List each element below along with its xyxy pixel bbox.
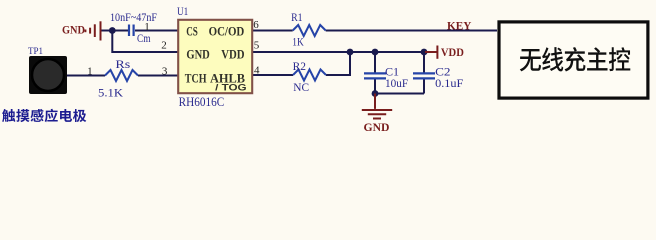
svg-text:NC: NC <box>293 82 309 94</box>
svg-text:Cm: Cm <box>137 33 151 45</box>
svg-text:1K: 1K <box>292 37 304 49</box>
svg-text:4: 4 <box>254 64 260 76</box>
svg-text:RH6016C: RH6016C <box>179 94 225 109</box>
svg-text:R1: R1 <box>291 12 303 24</box>
svg-text:TCH: TCH <box>185 71 207 85</box>
svg-text:VDD: VDD <box>221 47 244 61</box>
svg-text:/ TOG: / TOG <box>215 83 247 93</box>
svg-text:10uF: 10uF <box>385 78 408 90</box>
svg-text:VDD: VDD <box>441 47 464 59</box>
svg-text:CS: CS <box>186 25 198 39</box>
svg-text:KEY: KEY <box>447 18 472 32</box>
svg-text:GND: GND <box>62 25 85 37</box>
svg-text:1: 1 <box>144 21 150 33</box>
svg-text:U1: U1 <box>177 4 188 18</box>
svg-text:10nF~47nF: 10nF~47nF <box>110 12 157 24</box>
svg-text:OC/OD: OC/OD <box>209 25 245 39</box>
svg-text:GND: GND <box>364 120 390 134</box>
svg-text:3: 3 <box>162 66 168 78</box>
svg-text:0.1uF: 0.1uF <box>435 78 463 90</box>
svg-text:TP1: TP1 <box>28 46 43 57</box>
svg-text:5.1K: 5.1K <box>98 87 124 99</box>
svg-text:R2: R2 <box>293 61 307 73</box>
svg-text:GND: GND <box>186 47 209 61</box>
svg-text:Rs: Rs <box>115 59 131 71</box>
svg-text:2: 2 <box>161 40 167 52</box>
svg-text:1: 1 <box>87 66 93 78</box>
svg-text:5: 5 <box>254 40 260 52</box>
svg-text:6: 6 <box>253 19 259 31</box>
